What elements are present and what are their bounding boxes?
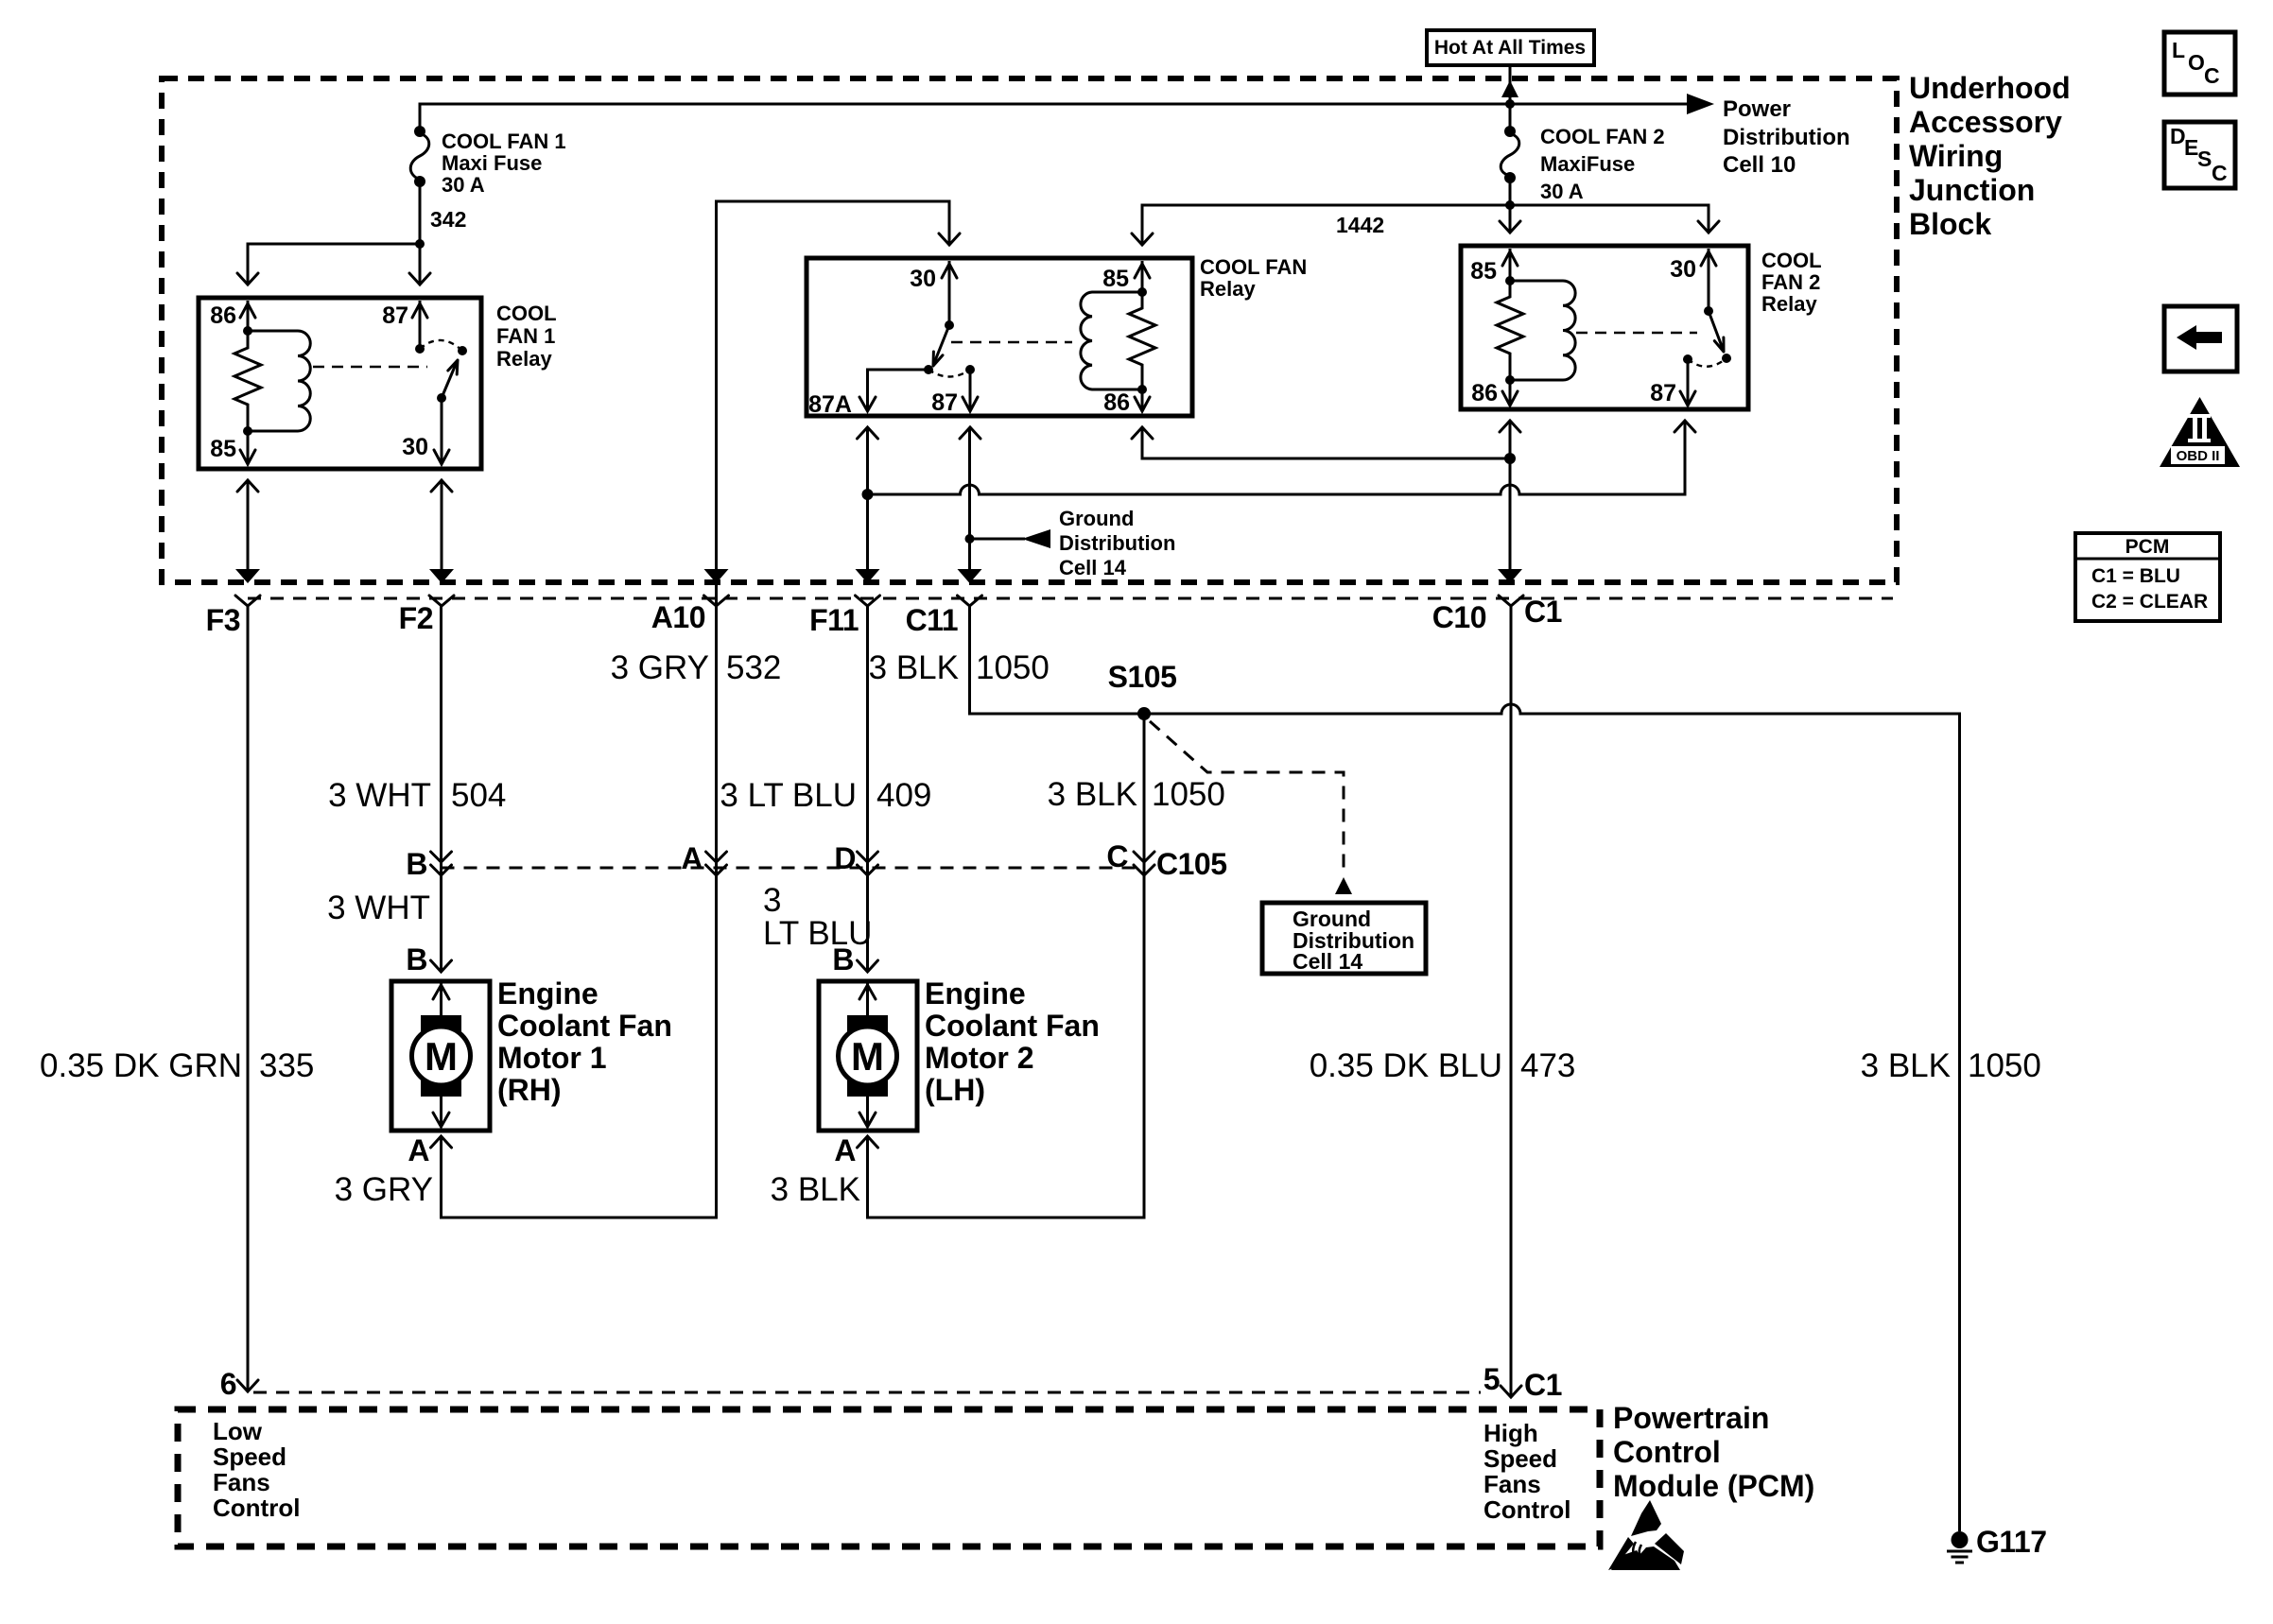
label 3 BLK 1050 (G117 leg)	[1861, 1047, 2041, 1084]
ESD symbol	[1608, 1500, 1684, 1570]
arrow border F2	[429, 569, 454, 583]
svg-text:30 A: 30 A	[442, 173, 485, 197]
svg-text:3: 3	[763, 882, 781, 919]
svg-text:87: 87	[382, 302, 408, 329]
svg-text:3 WHT: 3 WHT	[328, 777, 431, 814]
wire branch to relay1 pin 86	[248, 244, 420, 285]
node on relay2 86 line	[1504, 453, 1516, 464]
wire 1442 to mid relay pin 85 and relay2 pin 30	[1142, 205, 1709, 245]
svg-text:C1 = BLU: C1 = BLU	[2091, 565, 2180, 587]
svg-text:Coolant Fan: Coolant Fan	[925, 1009, 1100, 1043]
svg-text:(RH): (RH)	[497, 1073, 562, 1107]
relay COOL FAN 1 Relay box	[199, 298, 481, 469]
svg-text:342: 342	[430, 207, 466, 232]
wire mid relay 87A down to F11 node	[866, 427, 869, 494]
svg-text:Module (PCM): Module (PCM)	[1613, 1469, 1814, 1503]
label Engine Coolant Fan Motor 1 (RH)	[497, 976, 672, 1107]
relay2 pin 85 lead	[1509, 249, 1512, 281]
label COOL FAN 1 Maxi Fuse 30 A	[442, 130, 566, 197]
svg-text:C: C	[2204, 63, 2220, 88]
motor Engine Coolant Fan Motor 2 (LH)	[819, 981, 917, 1131]
svg-text:86: 86	[1471, 380, 1498, 406]
svg-text:85: 85	[210, 436, 236, 462]
svg-text:COOL: COOL	[1761, 249, 1822, 272]
PCM connector dashed row	[253, 1391, 1481, 1394]
svg-text:1050: 1050	[1968, 1047, 2041, 1084]
svg-text:B: B	[406, 942, 427, 976]
chevron A10	[704, 596, 729, 606]
chevron below relay2 86	[1500, 421, 1520, 432]
svg-text:Low: Low	[213, 1417, 263, 1445]
svg-text:Power: Power	[1723, 96, 1791, 122]
ground G117	[1947, 1531, 1972, 1563]
node S105	[1137, 707, 1151, 720]
arrow to ground distribution box	[1335, 877, 1352, 894]
svg-text:3 GRY: 3 GRY	[611, 649, 709, 686]
chevron motor2 pin B	[858, 960, 878, 972]
svg-text:Powertrain: Powertrain	[1613, 1401, 1769, 1435]
svg-text:Cell 14: Cell 14	[1059, 556, 1127, 579]
wire to ground distribution reference	[970, 538, 1026, 541]
svg-text:Maxi Fuse: Maxi Fuse	[442, 151, 542, 175]
node 1442 junction	[1505, 200, 1515, 210]
svg-text:30: 30	[402, 434, 428, 460]
svg-text:Motor 2: Motor 2	[925, 1041, 1034, 1075]
label 3 WHT 504	[328, 777, 506, 814]
relay1 pin 86 lead	[247, 301, 250, 331]
chevron motor1 pin A	[431, 1136, 452, 1148]
svg-text:C1: C1	[1524, 1368, 1562, 1402]
svg-text:(LH): (LH)	[925, 1073, 985, 1107]
svg-text:87A: 87A	[808, 391, 852, 418]
label 0.35 DK BLU 473	[1310, 1047, 1576, 1084]
svg-text:C10: C10	[1432, 600, 1486, 634]
svg-text:Block: Block	[1909, 207, 1991, 241]
svg-text:Speed: Speed	[213, 1443, 286, 1471]
node power bus / fuse2 feed	[1505, 99, 1515, 109]
svg-text:409: 409	[876, 777, 931, 814]
mid relay pin 87 lead	[969, 370, 972, 410]
mid relay pin 87A lead	[868, 370, 929, 410]
PCM dashed box (Powertrain Control Module)	[178, 1409, 1600, 1546]
svg-text:M: M	[851, 1034, 884, 1079]
arrow border F11	[856, 569, 880, 583]
label COOL FAN 2 MaxiFuse 30 A	[1540, 125, 1665, 203]
motor Engine Coolant Fan Motor 1 (RH)	[391, 981, 490, 1131]
fuse COOL FAN 1 Maxi Fuse 30 A	[410, 126, 429, 187]
C105 chevrons pin C	[1134, 852, 1154, 862]
label COOL FAN 1 Relay	[496, 302, 557, 371]
relay1 switch	[415, 344, 425, 354]
svg-text:B: B	[406, 847, 427, 881]
svg-text:0.35 DK BLU: 0.35 DK BLU	[1310, 1047, 1502, 1084]
chevron F3	[235, 596, 260, 606]
S105 dashed reference path	[1150, 721, 1344, 874]
svg-text:Ground: Ground	[1059, 507, 1134, 530]
svg-text:L: L	[2172, 38, 2185, 62]
wire 342 below fuse1	[419, 181, 422, 285]
arrow border A10	[704, 569, 729, 583]
relay1 dashed link	[313, 366, 427, 368]
label Engine Coolant Fan Motor 2 (LH)	[925, 976, 1100, 1107]
wire mid relay 87 down to border	[968, 427, 971, 571]
wire 87A node to relay2 87 (with hops)	[868, 421, 1686, 494]
wire S105 down to C105 pin C then to motor2 A	[868, 714, 1145, 1218]
relay2 pin 86 lead	[1509, 380, 1512, 405]
label Low Speed Fans Control	[213, 1417, 300, 1522]
wire mid relay 86 to relay2 86	[1142, 427, 1510, 458]
wire C10 column down to PCM pin 5	[1510, 606, 1513, 1397]
svg-text:Relay: Relay	[496, 347, 552, 371]
fuse COOL FAN 2 MaxiFuse 30 A	[1501, 104, 1519, 183]
svg-text:1050: 1050	[976, 649, 1050, 686]
svg-text:A: A	[834, 1133, 856, 1167]
arrow border F3	[235, 569, 260, 583]
svg-text:C: C	[2212, 161, 2228, 185]
svg-text:LT BLU: LT BLU	[763, 915, 872, 952]
svg-text:B: B	[832, 942, 854, 976]
icon OBD II triangle	[2160, 397, 2240, 467]
svg-text:Relay: Relay	[1200, 277, 1256, 301]
svg-text:M: M	[425, 1034, 458, 1079]
svg-text:O: O	[2188, 50, 2205, 75]
svg-text:3 BLK: 3 BLK	[1048, 776, 1137, 813]
label 3 / LT BLU (below C105)	[763, 882, 872, 952]
relay COOL FAN 2 Relay box	[1461, 246, 1748, 409]
connector row dashed line	[248, 597, 1893, 600]
svg-text:Cell 10: Cell 10	[1723, 152, 1796, 178]
chevron below mid relay 87A	[858, 427, 878, 439]
chevron motor2 pin A	[858, 1136, 878, 1148]
chevron below relay1 pin 30	[431, 480, 452, 492]
chevron F2	[429, 596, 454, 606]
mid relay pin 85 lead	[1141, 261, 1144, 292]
svg-text:MaxiFuse: MaxiFuse	[1540, 152, 1635, 176]
arrow up on feed wire	[1501, 80, 1518, 97]
chevron into mid relay pin 85	[1132, 233, 1153, 245]
wire relay2 86 to border	[1509, 421, 1512, 571]
node C11 ground branch	[965, 534, 975, 544]
mid relay pin 86 lead	[1141, 389, 1144, 410]
svg-text:3 BLK: 3 BLK	[1861, 1047, 1951, 1084]
svg-text:Control: Control	[213, 1494, 300, 1522]
svg-text:0.35 DK GRN: 0.35 DK GRN	[40, 1047, 242, 1084]
chevron motor1 pin B	[431, 960, 452, 972]
relay1 pin 87 lead	[419, 301, 422, 349]
svg-text:Motor 1: Motor 1	[497, 1041, 607, 1075]
relay2 dashed link	[1576, 332, 1697, 334]
svg-text:C2 = CLEAR: C2 = CLEAR	[2091, 591, 2208, 613]
wire A10 column down to motor1 A jog	[442, 606, 717, 1218]
chevron C10/C1	[1499, 596, 1523, 606]
chevron into relay2 pin 85	[1500, 221, 1520, 233]
label Ground Distribution Cell 14	[1059, 507, 1175, 579]
svg-text:C105: C105	[1156, 847, 1227, 881]
chevron PCM pin 5	[1501, 1386, 1521, 1397]
mid relay dashed link	[951, 341, 1072, 343]
svg-text:87: 87	[1650, 380, 1676, 406]
relay2 pin 87 lead	[1687, 359, 1690, 405]
svg-text:COOL: COOL	[496, 302, 557, 325]
node F11 junction	[862, 489, 874, 500]
svg-text:Control: Control	[1613, 1435, 1721, 1469]
chevron below relay2 87	[1674, 421, 1695, 432]
wire F3 column	[247, 606, 250, 1391]
label Powertrain Control Module (PCM)	[1613, 1401, 1814, 1503]
svg-text:A: A	[681, 841, 703, 875]
label 0.35 DK GRN 335	[40, 1047, 314, 1084]
wire: main power bus	[420, 104, 1689, 131]
svg-text:A: A	[408, 1133, 429, 1167]
svg-text:OBD II: OBD II	[2177, 448, 2220, 464]
label Power Distribution Cell 10	[1723, 96, 1850, 178]
svg-text:F3: F3	[206, 603, 240, 637]
chevron into relay1 pin 86	[237, 273, 258, 285]
relay1 resistor	[234, 331, 261, 431]
svg-text:3 WHT: 3 WHT	[327, 890, 430, 926]
label 3 LT BLU 409	[720, 777, 931, 814]
Ground Distribution Cell 14 box	[1262, 903, 1426, 974]
svg-text:C: C	[1106, 839, 1128, 873]
relay1 coil	[243, 326, 252, 336]
chevron below relay1 pin 85	[237, 480, 258, 492]
junction block dashed border (Underhood Accessory Wiring Junction Block)	[162, 78, 1897, 582]
relay COOL FAN Relay box (middle)	[807, 258, 1192, 416]
svg-text:Distribution: Distribution	[1059, 531, 1175, 555]
svg-text:Wiring: Wiring	[1909, 139, 2003, 173]
chevron into mid relay pin 30	[939, 233, 960, 245]
label 3 GRY 532	[611, 649, 782, 686]
wire F11 node to border	[866, 494, 869, 571]
svg-text:Control: Control	[1484, 1495, 1570, 1524]
icon back arrow box	[2164, 306, 2237, 371]
svg-text:Distribution: Distribution	[1723, 125, 1850, 150]
chevron F11	[856, 596, 880, 606]
wire F2 column	[440, 606, 442, 971]
svg-text:PCM: PCM	[2126, 536, 2170, 558]
mid relay pin 30 lead	[948, 261, 951, 325]
svg-text:3 BLK: 3 BLK	[771, 1171, 860, 1208]
mid relay switch	[945, 320, 954, 330]
svg-text:S105: S105	[1108, 660, 1177, 694]
svg-text:High: High	[1484, 1419, 1538, 1447]
svg-text:Engine: Engine	[497, 976, 599, 1011]
chevron into relay1 pin 87	[409, 273, 430, 285]
icon PCM legend box	[2075, 533, 2220, 621]
chevron PCM pin 6	[237, 1380, 258, 1391]
svg-text:FAN 1: FAN 1	[496, 324, 555, 348]
svg-text:F11: F11	[809, 603, 859, 637]
svg-text:C1: C1	[1524, 595, 1562, 629]
relay2 pin 30 lead	[1708, 249, 1710, 311]
svg-text:Speed: Speed	[1484, 1444, 1557, 1473]
C105 chevrons pin B	[431, 852, 452, 862]
chevron below mid relay 87	[960, 427, 980, 439]
svg-text:Underhood: Underhood	[1909, 71, 2071, 105]
svg-text:Cell 14: Cell 14	[1293, 949, 1362, 974]
relay1 pin 30 lead	[441, 398, 443, 464]
relay2 resistor	[1497, 281, 1523, 380]
wire: feed from Hot At All Times down	[1509, 65, 1512, 104]
Hot At All Times box	[1427, 30, 1594, 65]
svg-text:3 LT BLU: 3 LT BLU	[720, 777, 857, 814]
icon LOC box	[2164, 32, 2235, 95]
arrow border C11	[958, 569, 982, 583]
svg-text:Fans: Fans	[1484, 1470, 1541, 1498]
wire fuse2 down to relay2 pin 85	[1509, 178, 1512, 233]
connector C105 dashed row	[442, 867, 1145, 870]
svg-text:473: 473	[1520, 1047, 1575, 1084]
svg-text:COOL FAN 1: COOL FAN 1	[442, 130, 566, 153]
svg-text:Engine: Engine	[925, 976, 1026, 1011]
label 3 BLK 1050 (C11)	[869, 649, 1050, 686]
C105 chevrons pin D	[858, 852, 878, 862]
svg-text:Junction: Junction	[1909, 173, 2035, 207]
chevron C11	[958, 596, 982, 606]
svg-text:G117: G117	[1976, 1525, 2047, 1559]
label 3 BLK 1050 (S105 leg)	[1048, 776, 1225, 813]
svg-text:Hot At All Times: Hot At All Times	[1434, 37, 1586, 59]
svg-text:3 BLK: 3 BLK	[869, 649, 959, 686]
svg-text:1050: 1050	[1152, 776, 1225, 813]
node fuse1 branch	[415, 239, 425, 249]
svg-text:504: 504	[451, 777, 506, 814]
svg-text:6: 6	[220, 1367, 236, 1401]
label COOL FAN Relay	[1200, 255, 1307, 301]
relay2 coil	[1505, 276, 1515, 285]
arrow border C10	[1498, 569, 1522, 583]
svg-text:F2: F2	[399, 601, 433, 635]
svg-text:86: 86	[1103, 389, 1130, 416]
wire C11 column to S105	[970, 606, 1145, 714]
svg-text:A10: A10	[651, 600, 705, 634]
relay2 switch	[1704, 306, 1713, 316]
svg-text:1442: 1442	[1336, 213, 1384, 237]
chevron below mid relay 86	[1132, 427, 1153, 439]
svg-text:86: 86	[210, 302, 236, 329]
arrow to Power Distribution	[1687, 94, 1714, 114]
svg-text:30 A: 30 A	[1540, 180, 1584, 203]
svg-text:Coolant Fan: Coolant Fan	[497, 1009, 672, 1043]
arrow ground distribution (left pointing)	[1022, 529, 1050, 548]
svg-text:532: 532	[726, 649, 781, 686]
mid relay coil	[1137, 287, 1147, 297]
wire relay1 85 to border	[247, 480, 250, 571]
svg-text:30: 30	[910, 266, 936, 292]
svg-text:S: S	[2197, 147, 2212, 171]
svg-text:FAN 2: FAN 2	[1761, 270, 1820, 294]
label COOL FAN 2 Relay	[1761, 249, 1822, 316]
svg-text:Fans: Fans	[213, 1468, 270, 1496]
icon DESC box	[2164, 122, 2235, 188]
svg-text:Relay: Relay	[1761, 292, 1817, 316]
svg-text:85: 85	[1102, 266, 1129, 292]
svg-text:Accessory: Accessory	[1909, 105, 2062, 139]
svg-text:30: 30	[1670, 256, 1696, 283]
svg-text:3 GRY: 3 GRY	[335, 1171, 433, 1208]
label High Speed Fans Control	[1484, 1419, 1570, 1524]
svg-text:5: 5	[1484, 1362, 1500, 1396]
svg-text:87: 87	[931, 389, 958, 416]
wire S105 to G117 column (hop over C10)	[1144, 704, 1960, 1531]
label Underhood Accessory Wiring Junction Block	[1909, 71, 2071, 241]
svg-text:D: D	[834, 841, 856, 875]
svg-text:COOL FAN: COOL FAN	[1200, 255, 1307, 279]
svg-text:335: 335	[259, 1047, 314, 1084]
chevron into relay2 pin 30	[1698, 221, 1719, 233]
wire A10 riser to mid relay pin 30	[717, 201, 950, 604]
C105 chevrons pin A	[706, 852, 727, 862]
svg-text:C11: C11	[906, 603, 958, 637]
mid relay resistor	[1129, 292, 1155, 389]
wire relay1 30 to border	[441, 480, 443, 571]
svg-text:85: 85	[1470, 258, 1497, 285]
svg-text:COOL FAN 2: COOL FAN 2	[1540, 125, 1665, 148]
relay1 pin 85 lead	[247, 431, 250, 464]
wire F11 column	[866, 606, 869, 971]
